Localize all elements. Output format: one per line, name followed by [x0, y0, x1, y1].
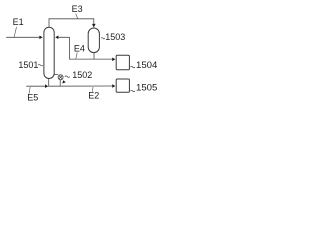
box 1504: [116, 55, 129, 70]
leader tilde 1501: [38, 64, 43, 66]
leader tilde 1503: [101, 38, 105, 39]
svg-text:E3: E3: [72, 4, 83, 14]
wire E3 riser from column top: [49, 19, 94, 27]
leader E5: [29, 87, 30, 94]
wire valve down to bottom line: [59, 80, 61, 86]
arrowhead into box 1505: [112, 84, 115, 88]
leader tilde 1502: [65, 76, 70, 78]
svg-text:E1: E1: [13, 17, 24, 27]
valve/pump 1502 circle: [58, 75, 63, 80]
wire vessel 1503 bottom stem: [93, 53, 95, 60]
arrowhead into vessel 1503 (E3): [92, 24, 96, 28]
leader tilde 1505: [131, 90, 135, 91]
svg-text:E2: E2: [88, 91, 99, 101]
wire E1 feed line: [6, 36, 39, 38]
arrowhead down-left near junction: [62, 80, 66, 83]
arrowhead into column (E1): [39, 36, 42, 40]
svg-text:1502: 1502: [72, 70, 92, 80]
arrowhead into column right (E4 reflux): [55, 36, 58, 40]
leader E4: [76, 53, 77, 59]
arrowhead E5 into column stem junction: [45, 84, 48, 88]
wire bottom line to 1505: [48, 85, 112, 87]
leader E3: [76, 14, 78, 19]
box 1505: [116, 79, 129, 92]
svg-text:E4: E4: [74, 44, 85, 54]
leader E1: [14, 27, 16, 37]
column 1501: [44, 27, 54, 78]
svg-text:1504: 1504: [136, 60, 158, 71]
wire column to valve 1502: [54, 74, 58, 76]
wire reflux line: column right to riser down to 1504 line: [58, 37, 113, 59]
svg-text:1505: 1505: [136, 83, 157, 94]
leader E2: [91, 87, 94, 92]
wire column bottom stem: [48, 79, 50, 87]
svg-text:1503: 1503: [105, 32, 125, 42]
leader tilde 1504: [131, 66, 135, 67]
svg-text:E5: E5: [27, 92, 38, 102]
wire E5 line: [26, 85, 45, 87]
vessel 1503: [88, 28, 99, 53]
svg-text:1501: 1501: [18, 60, 38, 70]
valve 1502 X mark: [59, 76, 62, 79]
arrowhead into box 1504: [112, 58, 115, 62]
